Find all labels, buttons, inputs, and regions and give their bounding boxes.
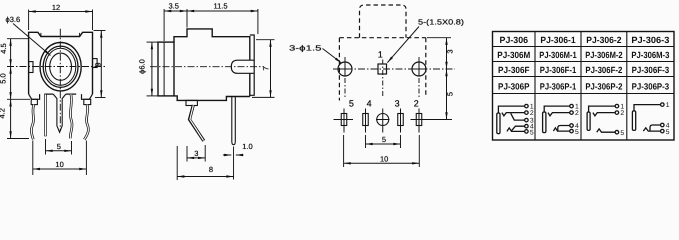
svg-text:4: 4 — [367, 99, 372, 109]
dimension 10 (bottom view bottom) — [344, 135, 420, 167]
label 3-phi1.5 with leader — [289, 44, 342, 64]
svg-text:12: 12 — [52, 3, 60, 12]
wire tip contact to terminal 2 — [502, 113, 525, 116]
front body bottom feet — [29, 94, 93, 99]
dimension 9 — [93, 31, 105, 98]
center crosshair — [7, 29, 105, 131]
svg-text:2: 2 — [414, 99, 419, 109]
right pin shoulder block — [84, 99, 91, 104]
terminal 1 — [525, 104, 529, 108]
wire sleeve to terminal 1 — [498, 106, 524, 113]
vertical axis left hole — [344, 57, 346, 98]
svg-text:10: 10 — [380, 154, 388, 163]
straight leg with rounded tip — [232, 97, 236, 180]
jack symbol PJ-306-3 — [632, 102, 669, 136]
svg-text:PJ-306M: PJ-306M — [497, 50, 530, 60]
center round pin hole — [376, 109, 390, 133]
wire tip contact to terminal 2 — [593, 113, 615, 116]
side body outline — [174, 29, 250, 101]
wavy pin far left — [31, 105, 34, 140]
flange (barrel front) — [158, 42, 174, 96]
svg-text:9: 9 — [93, 62, 102, 66]
left pin shoulder block — [31, 99, 37, 104]
mounting hole right — [412, 62, 426, 76]
terminal 1 — [661, 103, 665, 107]
front body outline — [29, 32, 93, 94]
svg-text:5: 5 — [382, 135, 386, 144]
jack symbol PJ-306-2 — [587, 104, 624, 138]
barrel J3 — [587, 112, 590, 130]
svg-text:PJ-306P-1: PJ-306P-1 — [540, 82, 577, 92]
terminal 4 — [661, 123, 665, 127]
mounting hole left — [338, 62, 352, 76]
svg-text:2: 2 — [530, 110, 534, 117]
dimension 10 (front bottom) — [33, 141, 87, 176]
table column lines — [535, 32, 627, 141]
terminal 1 — [615, 104, 619, 108]
wire sleeve to terminal 1 — [544, 106, 570, 112]
bent leg — [190, 105, 204, 141]
svg-text:3: 3 — [445, 49, 454, 53]
svg-text:PJ-306M-1: PJ-306M-1 — [539, 50, 576, 60]
terminal 4 — [570, 124, 574, 128]
terminal 5 — [615, 130, 619, 134]
dimension 5 (front bottom) — [46, 139, 72, 155]
terminal labels — [575, 104, 579, 137]
wire sleeve to terminal 1 — [634, 105, 661, 111]
svg-text:PJ-306-3: PJ-306-3 — [631, 35, 669, 45]
svg-text:5: 5 — [620, 130, 624, 137]
jack symbol PJ-306-1 — [543, 104, 579, 137]
svg-text:PJ-306M-2: PJ-306M-2 — [585, 50, 622, 60]
wire ring contact to terminal 5 — [643, 128, 660, 131]
dimension 5.0 — [0, 67, 30, 100]
side center line — [150, 66, 264, 68]
barrel ellipses — [40, 42, 81, 90]
dimension 4.5 — [0, 39, 29, 67]
svg-text:5: 5 — [445, 92, 454, 96]
wire ring contact to terminal 5 — [597, 129, 616, 132]
upper dashed rect (barrel footprint) — [360, 5, 407, 38]
barrel J1 — [497, 113, 500, 134]
svg-text:5: 5 — [57, 142, 61, 151]
dimension 1.0 — [223, 142, 253, 155]
dimension phi6.0 — [138, 42, 158, 96]
svg-text:1.0: 1.0 — [242, 142, 252, 151]
svg-text:PJ-306: PJ-306 — [500, 35, 529, 45]
dimension 5 (bottom view right) — [429, 69, 454, 120]
vertical axis center — [382, 60, 384, 99]
svg-text:10: 10 — [55, 160, 63, 169]
svg-text:PJ-306F: PJ-306F — [498, 65, 530, 75]
wire terminal 3 NC contact — [511, 113, 525, 120]
svg-text:5.0: 5.0 — [0, 73, 8, 83]
straight pin — [44, 94, 46, 136]
pad number labels — [349, 99, 419, 109]
svg-text:ϕ3.6: ϕ3.6 — [6, 15, 21, 24]
dimension 3 (bottom view right) — [427, 38, 454, 69]
terminal 5 — [570, 129, 574, 133]
svg-text:PJ-306P: PJ-306P — [498, 82, 530, 92]
label phi3.6 with leader — [6, 15, 51, 56]
terminal 1 — [570, 104, 574, 108]
barrel J4 — [632, 111, 635, 130]
vertical axis right hole — [418, 57, 420, 98]
terminal 5 — [661, 129, 665, 133]
terminal 2 — [570, 111, 574, 115]
table row lines — [493, 47, 675, 94]
svg-text:5: 5 — [666, 129, 670, 136]
svg-text:3: 3 — [194, 149, 198, 158]
wire ring contact to terminal 5 — [553, 128, 570, 131]
dimension 3 (side) — [187, 145, 205, 162]
barrel J2 — [543, 112, 546, 133]
dimension 4.2 — [0, 99, 29, 138]
dimension 5 (bottom view bottom) — [366, 135, 401, 148]
terminal 2 — [525, 111, 529, 115]
svg-text:11.5: 11.5 — [213, 2, 227, 11]
dimension 11.5 — [187, 2, 258, 34]
terminal labels — [666, 102, 670, 136]
wire sleeve to terminal 1 — [589, 106, 616, 112]
terminal 2 — [615, 111, 619, 115]
pad 4 — [363, 109, 369, 133]
svg-text:PJ-306-2: PJ-306-2 — [586, 35, 621, 45]
svg-text:3: 3 — [395, 99, 400, 109]
right contact plate — [250, 35, 254, 95]
dimension 12 (front view width) — [29, 3, 93, 30]
square slot pin1 — [378, 64, 387, 74]
svg-text:2: 2 — [575, 110, 579, 117]
svg-text:1: 1 — [378, 50, 383, 60]
slot with rounded end — [231, 60, 254, 73]
svg-text:7: 7 — [262, 66, 271, 70]
svg-text:4.5: 4.5 — [0, 43, 8, 53]
svg-text:5-(1.5X0.8): 5-(1.5X0.8) — [418, 18, 465, 27]
svg-text:1: 1 — [666, 102, 670, 109]
pad 3 — [398, 109, 404, 133]
svg-text:5: 5 — [349, 99, 354, 109]
pad 2 — [411, 109, 430, 133]
jack symbol PJ-306 — [497, 104, 534, 137]
svg-text:PJ-306F-3: PJ-306F-3 — [632, 65, 670, 75]
wire terminal 4 drop — [558, 126, 570, 131]
middle flat pin — [53, 94, 66, 132]
table outer border — [493, 32, 675, 141]
wire terminal 4 drop — [650, 125, 661, 131]
dimension 8 — [177, 146, 233, 180]
svg-text:PJ-306-1: PJ-306-1 — [540, 35, 575, 45]
svg-text:ϕ6.0: ϕ6.0 — [138, 59, 147, 74]
terminal labels — [620, 104, 624, 138]
svg-text:2: 2 — [620, 110, 624, 117]
wavy pin far right — [84, 105, 88, 140]
side recess left edge — [29, 62, 33, 73]
svg-text:3-ϕ1.5: 3-ϕ1.5 — [289, 44, 322, 53]
svg-text:PJ-306F-2: PJ-306F-2 — [585, 65, 622, 75]
terminal 3 — [525, 118, 529, 122]
svg-text:PJ-306P-2: PJ-306P-2 — [585, 82, 622, 92]
svg-text:PJ-306M-3: PJ-306M-3 — [631, 50, 669, 60]
dimension 3.5 — [164, 2, 187, 41]
svg-text:3.5: 3.5 — [168, 2, 178, 11]
dimension 7 — [252, 40, 275, 98]
svg-text:5: 5 — [575, 129, 579, 136]
svg-text:5: 5 — [530, 129, 534, 136]
terminal 5 — [525, 130, 529, 134]
terminal 4 — [525, 124, 529, 128]
horizontal center line through holes — [333, 68, 455, 70]
svg-text:PJ-306F-1: PJ-306F-1 — [540, 65, 577, 75]
side nub right edge — [93, 59, 98, 68]
wavy pin mid-right — [70, 94, 72, 138]
left leg mounting block — [186, 100, 197, 105]
main dashed outline — [339, 38, 425, 101]
svg-text:8: 8 — [209, 165, 213, 174]
wire tip contact to terminal 2 — [548, 113, 570, 116]
table part number texts — [497, 35, 669, 92]
wire terminal 4 NC contact — [511, 126, 525, 131]
svg-text:4.2: 4.2 — [0, 108, 6, 118]
svg-text:PJ-306P-3: PJ-306P-3 — [632, 82, 670, 92]
wire ring contact to terminal 5 — [507, 128, 525, 131]
label 5-(1.5X0.8) with leader — [387, 18, 464, 63]
terminal labels 1-5 — [530, 104, 534, 137]
pad 5 — [334, 109, 354, 133]
